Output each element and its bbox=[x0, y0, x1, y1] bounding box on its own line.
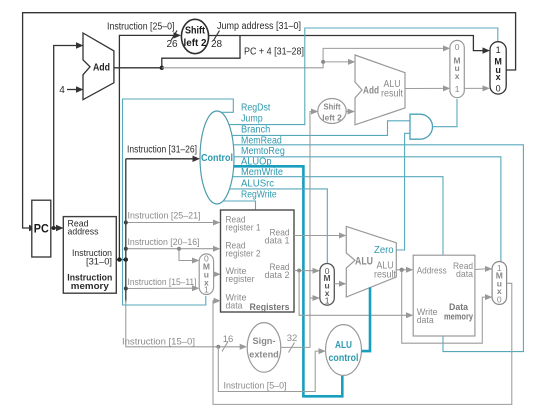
adder Add (branch target) bbox=[355, 55, 405, 125]
node PC+4 junction bbox=[160, 66, 164, 70]
svg-text:Add: Add bbox=[363, 86, 379, 97]
sign extender Sign-extend bbox=[247, 323, 281, 373]
svg-text:left 2: left 2 bbox=[322, 113, 342, 123]
svg-text:[31–0]: [31–0] bbox=[86, 257, 112, 268]
wire ALUSrc to ALU mux select bbox=[230, 189, 328, 263]
mux ALUSrc bbox=[320, 264, 334, 306]
svg-text:memory: memory bbox=[71, 281, 110, 292]
node PC+4 branch junction bbox=[321, 60, 325, 64]
bit-width slash 26 bbox=[171, 31, 177, 41]
wire MemtoReg to final mux select bbox=[234, 157, 501, 262]
bit-width slash 28 bbox=[214, 31, 220, 41]
mux write register (RegDst mux) bbox=[199, 254, 213, 295]
instruction memory bbox=[63, 217, 116, 294]
wire RegWrite to Registers bbox=[223, 201, 256, 210]
svg-text:Shift: Shift bbox=[324, 102, 341, 112]
svg-text:Registers: Registers bbox=[250, 302, 290, 313]
node tap 15-11 bbox=[124, 287, 128, 291]
svg-text:Instruction [5–0]: Instruction [5–0] bbox=[224, 381, 287, 392]
mux branch (PCSrc mux) bbox=[450, 40, 464, 97]
svg-text:0: 0 bbox=[497, 295, 502, 305]
wire PC output to instruction memory bbox=[51, 227, 57, 229]
svg-text:ALUSrc: ALUSrc bbox=[241, 179, 274, 190]
svg-text:Instruction [20–16]: Instruction [20–16] bbox=[128, 237, 200, 248]
svg-text:Instruction [31–26]: Instruction [31–26] bbox=[127, 145, 197, 156]
svg-text:RegWrite: RegWrite bbox=[241, 190, 277, 201]
wire instruction[15-11] to write-register mux input 1 bbox=[126, 287, 193, 289]
wire Jump to top jump mux select bbox=[229, 28, 498, 125]
svg-text:x: x bbox=[496, 72, 501, 82]
alu control unit bbox=[326, 325, 362, 376]
wire instruction[20-16] to Read register 2 bbox=[126, 248, 214, 250]
gate AND (branch and zero) bbox=[410, 114, 432, 139]
shifter Shift left 2 (branch) bbox=[318, 99, 346, 124]
wire instruction[31-26] into Control bbox=[126, 158, 193, 160]
node tap 20-16 bbox=[124, 247, 128, 251]
data memory bbox=[413, 255, 475, 336]
wire Read data 1 to ALU bbox=[294, 235, 340, 237]
registers bbox=[221, 210, 295, 312]
wire ALU control to ALU operation input thick bbox=[362, 287, 371, 351]
wire instruction[5-0] to ALU control bbox=[218, 347, 319, 392]
svg-text:0: 0 bbox=[455, 42, 460, 52]
wire ALUSrc mux output to ALU bbox=[334, 283, 339, 285]
svg-text:Sign-: Sign- bbox=[253, 336, 276, 347]
control unit Control bbox=[200, 111, 234, 204]
mux MemtoReg (write-back mux) bbox=[492, 262, 507, 305]
svg-text:Add: Add bbox=[93, 62, 110, 74]
wire PC+4 tap to branch Add top input bbox=[323, 61, 348, 63]
wire Add output PC+4 bbox=[114, 67, 162, 69]
svg-text:Instruction [15–0]: Instruction [15–0] bbox=[122, 337, 195, 348]
svg-text:Address: Address bbox=[417, 266, 447, 277]
svg-text:data: data bbox=[456, 269, 474, 280]
svg-text:32: 32 bbox=[287, 333, 298, 344]
wire write-register mux output bbox=[213, 273, 216, 275]
svg-text:result: result bbox=[374, 270, 396, 281]
svg-text:1: 1 bbox=[455, 84, 460, 94]
wire PC+4 gray to branch adder and mux bbox=[162, 48, 444, 67]
wire instruction output to vertical buses bbox=[116, 259, 126, 261]
wire sign-extend output to ALU mux and shift left 2 bbox=[281, 112, 312, 348]
svg-text:PC: PC bbox=[34, 222, 49, 236]
svg-text:Instruction [15–11]: Instruction [15–11] bbox=[128, 277, 197, 288]
wire PC+4[31-28] riser joining jump address bbox=[162, 36, 240, 68]
wire sign-extend branch to ALU mux input 1 bbox=[310, 297, 313, 299]
wire shift left 2 to branch Add bbox=[346, 111, 348, 113]
wire instruction[31-26] bus down to sign-extend tap bbox=[125, 159, 127, 302]
svg-text:data 2: data 2 bbox=[265, 270, 290, 281]
svg-text:Instruction [25–21]: Instruction [25–21] bbox=[128, 211, 201, 222]
node sign-extend input junction bbox=[216, 345, 220, 349]
shifter Shift left 2 (jump) bbox=[181, 19, 208, 53]
node PC output junction bbox=[52, 226, 56, 230]
node instruction junction right bbox=[124, 257, 128, 261]
wire constant 4 into Add bbox=[67, 89, 77, 91]
svg-text:result: result bbox=[381, 89, 403, 100]
wire write-back to registers write data bbox=[213, 283, 512, 404]
mux jump (final PC mux) bbox=[490, 42, 506, 94]
svg-text:data: data bbox=[417, 315, 435, 326]
wire Branch to AND gate input bbox=[232, 121, 410, 136]
svg-text:left 2: left 2 bbox=[184, 37, 207, 49]
svg-text:4: 4 bbox=[59, 85, 65, 96]
wire RegDst from Control around to write-register mux select bbox=[123, 99, 234, 305]
svg-text:28: 28 bbox=[211, 39, 223, 50]
wire branch Add result to branch mux bbox=[405, 87, 444, 89]
wire ALUOp thick to ALU control bbox=[234, 166, 343, 396]
svg-text:MemtoReg: MemtoReg bbox=[241, 146, 285, 157]
wire MemWrite to data memory top bbox=[233, 177, 444, 255]
svg-text:Jump address [31–0]: Jump address [31–0] bbox=[217, 21, 301, 32]
wire memory read data to final mux input 1 bbox=[475, 268, 486, 271]
wire Read data 2 to ALU mux bbox=[294, 270, 313, 272]
svg-text:Branch: Branch bbox=[241, 125, 270, 136]
wire jump address to jump mux bbox=[209, 36, 483, 51]
svg-text:address: address bbox=[68, 227, 99, 238]
wire PC to Add (PC+4) bbox=[54, 46, 77, 229]
svg-text:register: register bbox=[226, 274, 255, 285]
svg-text:ALU: ALU bbox=[335, 340, 352, 351]
svg-text:Data: Data bbox=[449, 302, 469, 312]
wire Zero to AND gate bbox=[396, 133, 409, 250]
node ALU result junction bbox=[400, 268, 404, 272]
wire instruction[20-16] branch to write-register mux input 0 bbox=[179, 249, 193, 261]
alu main ALU bbox=[346, 226, 396, 297]
PC bbox=[32, 200, 51, 257]
svg-text:memory: memory bbox=[444, 312, 473, 322]
svg-text:data 1: data 1 bbox=[265, 236, 290, 247]
svg-text:register 1: register 1 bbox=[226, 223, 261, 234]
wire read data 2 to memory write data bbox=[299, 271, 406, 316]
svg-text:1: 1 bbox=[204, 285, 209, 295]
node tap 25-21 bbox=[124, 221, 128, 225]
svg-text:control: control bbox=[329, 353, 359, 364]
svg-text:RegDst: RegDst bbox=[241, 103, 270, 114]
svg-text:data: data bbox=[226, 301, 244, 312]
svg-text:PC + 4 [31–28]: PC + 4 [31–28] bbox=[244, 47, 304, 58]
svg-text:1: 1 bbox=[325, 295, 330, 305]
svg-text:Control: Control bbox=[201, 152, 233, 164]
svg-text:x: x bbox=[455, 71, 460, 81]
wire ALU result to data memory address bbox=[396, 269, 406, 271]
wire ALU result bypass to final mux input 0 bbox=[402, 270, 486, 343]
svg-text:26: 26 bbox=[166, 39, 178, 50]
wire instruction[25-21] to Read register 1 bbox=[126, 222, 214, 224]
wire branch mux output to jump mux bbox=[464, 87, 483, 89]
svg-text:extend: extend bbox=[249, 350, 279, 361]
svg-text:Zero: Zero bbox=[374, 245, 394, 256]
svg-text:Shift: Shift bbox=[185, 25, 205, 37]
svg-text:Instruction [25–0]: Instruction [25–0] bbox=[107, 22, 175, 33]
svg-text:1: 1 bbox=[496, 45, 501, 55]
wire MemRead to data memory bottom bbox=[233, 145, 523, 352]
wire PC feedback from jump mux output across top to PC bbox=[23, 13, 516, 228]
wire AND output to branch mux select bbox=[433, 99, 458, 127]
node read data 2 junction bbox=[297, 269, 301, 273]
adder Add (PC+4) bbox=[83, 33, 114, 100]
bit-width slash 32 bbox=[289, 343, 295, 353]
bit-width slash 16 bbox=[222, 342, 228, 352]
svg-text:Jump: Jump bbox=[241, 114, 263, 125]
svg-text:register 2: register 2 bbox=[226, 249, 261, 260]
svg-text:ALU: ALU bbox=[355, 256, 373, 268]
wire Instruction[25-0] up the left bus to shift left 2 bbox=[119, 35, 174, 259]
node instruction junction left bbox=[117, 257, 121, 261]
svg-text:0: 0 bbox=[496, 84, 501, 94]
svg-text:16: 16 bbox=[223, 334, 234, 345]
node 20-16 branch junction bbox=[177, 247, 181, 251]
